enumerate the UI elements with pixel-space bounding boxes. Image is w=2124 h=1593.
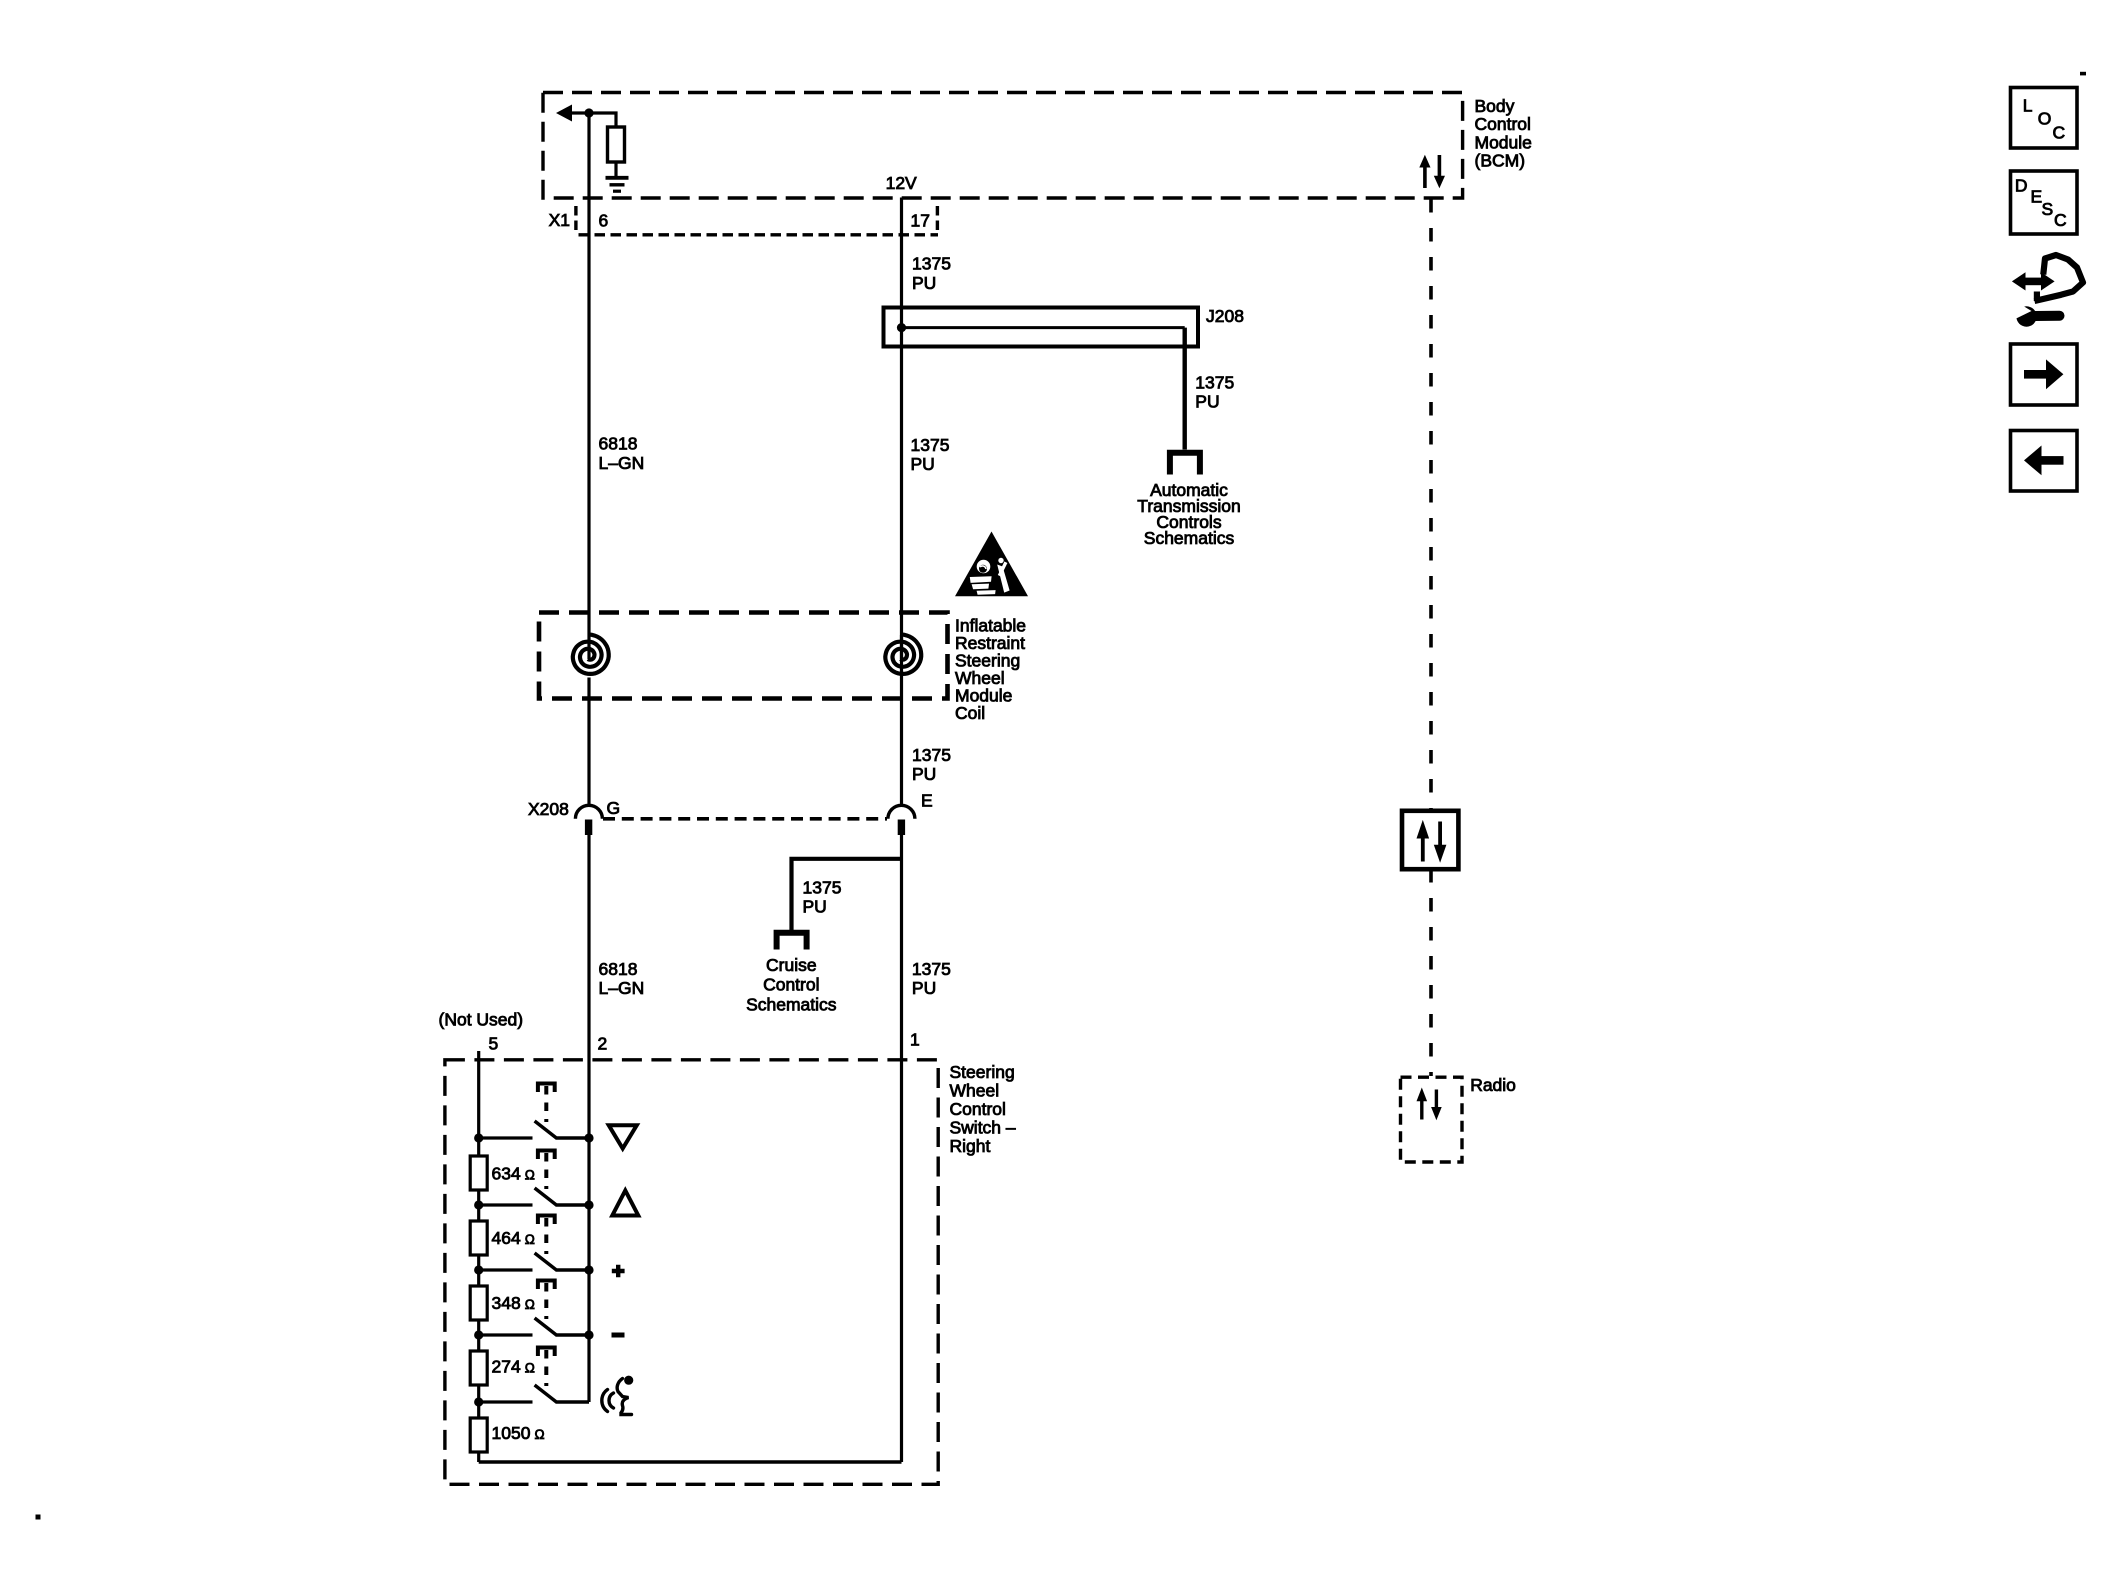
svg-text:6818: 6818 [599,434,638,454]
svg-text:17: 17 [911,211,930,231]
svg-text:Body: Body [1475,96,1515,116]
svg-text:PU: PU [912,273,936,293]
svg-text:PU: PU [911,454,935,474]
svg-text:1375: 1375 [1195,373,1234,393]
svg-text:1: 1 [910,1030,920,1050]
svg-text:Radio: Radio [1470,1075,1516,1095]
svg-text:C: C [2053,122,2066,142]
svg-text:PU: PU [1195,392,1219,412]
svg-text:J208: J208 [1206,306,1244,326]
svg-text:(BCM): (BCM) [1475,151,1526,171]
svg-text:2: 2 [598,1034,608,1054]
svg-text:1375: 1375 [911,435,950,455]
svg-text:L–GN: L–GN [599,978,645,998]
svg-text:5: 5 [489,1034,499,1054]
svg-text:L–GN: L–GN [599,453,645,473]
svg-text:Right: Right [950,1136,991,1156]
svg-text:D: D [2015,176,2028,196]
svg-text:PU: PU [912,978,936,998]
svg-text:1375: 1375 [912,745,951,765]
svg-text:Wheel: Wheel [950,1081,1000,1101]
svg-text:PU: PU [803,897,827,917]
svg-text:Steering: Steering [950,1062,1015,1082]
svg-text:L: L [2023,96,2033,116]
svg-text:Schematics: Schematics [746,995,837,1015]
svg-text:PU: PU [912,764,936,784]
svg-text:E: E [921,791,933,811]
svg-text:Coil: Coil [955,703,985,723]
svg-text:Schematics: Schematics [1144,528,1235,548]
svg-text:Cruise: Cruise [766,955,817,975]
svg-text:6: 6 [599,211,609,231]
svg-text:Control: Control [763,975,819,995]
svg-text:12V: 12V [886,173,917,193]
svg-text:X208: X208 [528,799,569,819]
svg-text:1375: 1375 [803,878,842,898]
svg-text:Switch –: Switch – [950,1118,1016,1138]
svg-text:Control: Control [950,1099,1006,1119]
svg-text:6818: 6818 [599,959,638,979]
svg-text:1375: 1375 [912,254,951,274]
svg-text:C: C [2054,210,2067,230]
svg-text:1375: 1375 [912,959,951,979]
svg-text:Control: Control [1475,114,1531,134]
svg-text:O: O [2038,108,2052,128]
svg-text:(Not Used): (Not Used) [439,1010,524,1030]
svg-text:Module: Module [1475,132,1532,152]
svg-text:X1: X1 [549,210,570,230]
svg-text:S: S [2042,199,2054,219]
svg-text:G: G [607,798,621,818]
svg-text:E: E [2031,187,2043,207]
